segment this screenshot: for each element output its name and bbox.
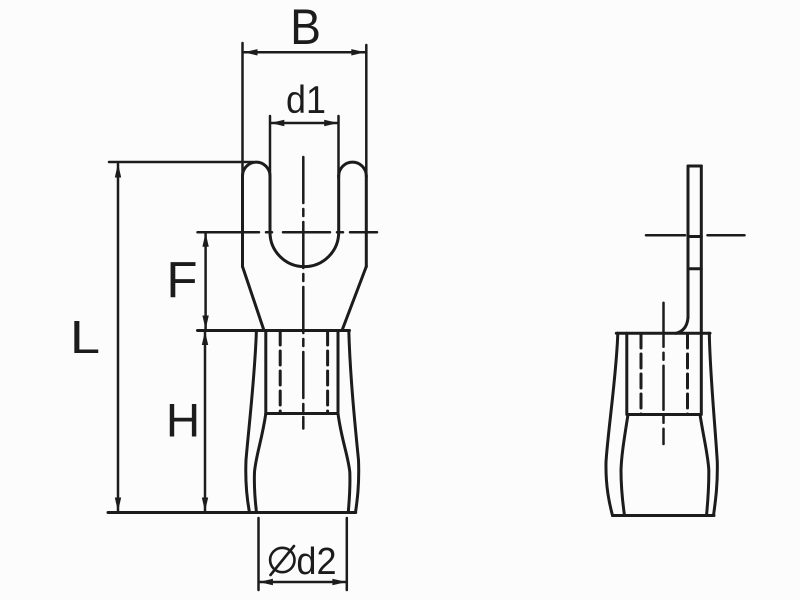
L extension line top bbox=[109, 161, 253, 164]
side metal barrel left edge bbox=[625, 333, 628, 414]
svg-text:d1: d1 bbox=[286, 77, 326, 121]
right prong outer edge bbox=[365, 176, 368, 267]
blade slot-depth mark bbox=[688, 267, 701, 270]
F arrow down bbox=[202, 316, 208, 330]
label Od2 bbox=[270, 539, 336, 582]
d2 extension line right bbox=[346, 518, 349, 590]
right prong cap arc bbox=[339, 162, 367, 176]
svg-text:L: L bbox=[70, 311, 100, 363]
d1 extension line left bbox=[269, 116, 272, 178]
H arrow up bbox=[202, 331, 208, 345]
label H bbox=[166, 395, 200, 448]
d2 arrow left bbox=[259, 579, 273, 585]
side vertical centerline bbox=[662, 303, 665, 444]
metal barrel right edge bbox=[337, 331, 340, 414]
left taper edge bbox=[243, 267, 265, 331]
label d1 bbox=[286, 77, 326, 121]
diameter symbol circle bbox=[270, 548, 294, 572]
d1 extension line right bbox=[337, 116, 340, 178]
wire hole hidden line left bbox=[279, 331, 282, 414]
d2 dimension line bbox=[259, 581, 346, 584]
F arrow up bbox=[202, 233, 208, 247]
sleeve outer left line bbox=[246, 331, 257, 513]
blade right edge continuing into barrel bbox=[700, 166, 703, 415]
diameter symbol slash bbox=[271, 546, 295, 575]
side crimp bottom line bbox=[628, 413, 700, 416]
side wire hidden line left bbox=[640, 334, 643, 415]
svg-text:d2: d2 bbox=[296, 539, 336, 582]
label L bbox=[70, 311, 100, 363]
sleeve inner left line bbox=[254, 414, 265, 513]
L dimension line bbox=[117, 164, 120, 511]
B extension line right bbox=[365, 45, 368, 178]
barrel top edge with F/H extension line bbox=[198, 329, 350, 332]
B dimension line bbox=[244, 51, 365, 54]
side sleeve outer left line bbox=[606, 333, 618, 515]
H dimension line bbox=[204, 332, 207, 512]
d2 extension line left bbox=[257, 518, 260, 590]
side barrel top edge bbox=[616, 332, 710, 335]
H arrow down bbox=[202, 498, 208, 512]
right taper edge bbox=[342, 267, 366, 331]
svg-text:F: F bbox=[166, 252, 197, 309]
svg-text:H: H bbox=[166, 395, 200, 448]
wire hole hidden line right bbox=[326, 331, 329, 414]
B extension line left bbox=[241, 43, 244, 178]
side horizontal centerline left segment bbox=[646, 234, 685, 237]
left prong outer edge bbox=[241, 176, 244, 267]
side sleeve outer right line bbox=[709, 333, 717, 515]
crimp bottom line bbox=[266, 412, 338, 415]
F dimension line bbox=[204, 233, 207, 329]
side sleeve inner left line bbox=[621, 415, 628, 516]
left prong inner edge bbox=[269, 176, 272, 232]
barrel bottom edge with L/H extension line bbox=[108, 511, 356, 514]
d2 arrow right bbox=[332, 579, 346, 585]
sleeve outer right line bbox=[349, 331, 359, 513]
B arrow right bbox=[351, 49, 365, 55]
L arrow up bbox=[115, 164, 121, 178]
side wire hidden line right bbox=[686, 334, 689, 415]
blade centerline cross mark bbox=[688, 235, 701, 238]
right prong inner edge bbox=[337, 176, 340, 232]
d1 dimension line bbox=[270, 122, 338, 125]
sleeve inner right line bbox=[338, 414, 350, 513]
label F bbox=[166, 252, 197, 309]
F extension line top bbox=[198, 231, 248, 234]
blade top cap bbox=[688, 165, 701, 168]
slot U-bottom arc bbox=[270, 232, 339, 266]
left prong cap arc bbox=[243, 162, 271, 176]
svg-text:B: B bbox=[290, 0, 321, 55]
d1 arrow right bbox=[324, 120, 338, 126]
blade bottom fillet bbox=[676, 318, 688, 334]
B arrow left bbox=[244, 49, 258, 55]
blade left edge bbox=[687, 166, 690, 318]
side horizontal centerline right segment bbox=[708, 234, 745, 237]
horizontal centerline of stud hole bbox=[228, 231, 377, 234]
metal barrel left edge bbox=[264, 331, 267, 414]
side sleeve inner right line bbox=[700, 415, 709, 516]
d1 arrow left bbox=[270, 120, 284, 126]
label B bbox=[290, 0, 321, 55]
vertical centerline front view bbox=[302, 157, 305, 429]
L arrow down bbox=[115, 498, 121, 512]
label d2 bbox=[296, 539, 336, 582]
side barrel bottom edge bbox=[613, 514, 715, 517]
